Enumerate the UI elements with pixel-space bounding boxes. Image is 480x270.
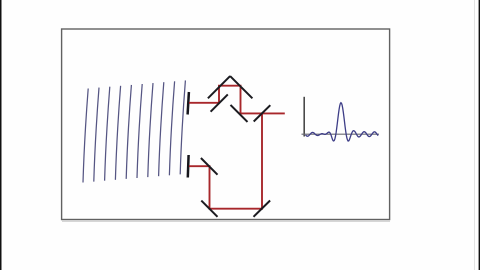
grating line 1 xyxy=(83,89,88,183)
grating line 7 xyxy=(148,83,153,177)
frame bottom shadow xyxy=(62,220,390,222)
right screen edge line xyxy=(479,0,480,270)
red beam: upper input xyxy=(189,102,219,104)
grating line 9 xyxy=(169,81,174,175)
diagram frame xyxy=(62,29,390,220)
red beam: bottom leg xyxy=(209,208,263,210)
red beam: up to roof xyxy=(218,86,220,104)
grating line 4 xyxy=(115,86,120,180)
grating line 6 xyxy=(137,84,142,178)
left screen edge line xyxy=(0,0,2,270)
grating lower edge tick xyxy=(187,155,190,178)
plot vertical axis xyxy=(303,97,305,137)
red beam: across roof xyxy=(218,85,242,87)
red beam: down from roof xyxy=(240,86,242,114)
red beam: down leg xyxy=(209,165,211,209)
grating line 5 xyxy=(126,85,131,179)
red beam: to beamsplitter and output xyxy=(240,112,285,114)
mirror M2 xyxy=(231,105,248,122)
grating upper edge tick xyxy=(188,92,189,115)
mirror M1 xyxy=(211,94,228,111)
grating line 10 xyxy=(180,80,185,174)
mirror M4 xyxy=(201,201,217,217)
sinc waveform xyxy=(306,103,379,141)
mirror M5 xyxy=(254,201,271,217)
red beam: lower input xyxy=(189,165,210,167)
grating line 2 xyxy=(94,88,99,182)
right edge faint smudge xyxy=(474,0,475,270)
mirror M3 xyxy=(201,158,218,175)
roof mirror left xyxy=(208,76,230,98)
grating line 8 xyxy=(159,82,164,176)
grating line 3 xyxy=(105,87,110,181)
red beam: up to beamsplitter xyxy=(261,112,263,209)
beamsplitter BS xyxy=(254,105,271,121)
roof mirror right xyxy=(230,76,252,98)
plot horizontal axis xyxy=(302,133,380,135)
